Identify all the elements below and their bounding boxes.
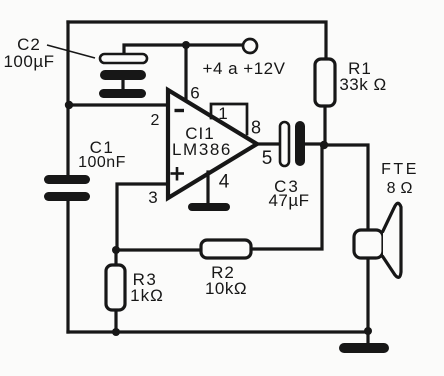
wire top rail (left column top to R1 top) bbox=[68, 22, 326, 59]
wire pin 3 (op-amp non-inverting input down to node B) bbox=[117, 184, 167, 250]
svg-text:33k Ω: 33k Ω bbox=[339, 75, 386, 94]
wire ground stub bottom right bbox=[366, 332, 369, 344]
wire output node to speaker bbox=[324, 145, 368, 230]
junction node B bbox=[112, 246, 120, 254]
wire bottom rail bbox=[68, 330, 368, 333]
svg-text:5: 5 bbox=[262, 148, 273, 169]
svg-text:8: 8 bbox=[251, 118, 261, 138]
ground bottom right bbox=[339, 343, 389, 353]
wire node A to C1 top plate bbox=[66, 105, 69, 176]
capacitor C1 top plate bbox=[44, 175, 90, 184]
wire C2 positive riser bbox=[124, 45, 186, 54]
junction node A bbox=[65, 101, 73, 109]
svg-text:100µF: 100µF bbox=[3, 52, 54, 71]
capacitor C3 negative plate bbox=[295, 121, 305, 166]
wire pin 4 (op-amp to ground) bbox=[206, 172, 209, 204]
wire R2 right riser to output node bbox=[251, 145, 322, 249]
wire R3 bottom to bottom rail bbox=[114, 310, 117, 332]
svg-text:LM386: LM386 bbox=[172, 140, 232, 159]
op-amp U1 triangle bbox=[168, 90, 257, 198]
capacitor C2 negative plate bbox=[100, 70, 146, 80]
junction R3 bottom bbox=[112, 328, 120, 336]
capacitor C1 bottom plate bbox=[44, 192, 90, 201]
wire pin 2 (node A to op-amp inverting input) bbox=[68, 103, 167, 106]
wire left column upper (top rail to node A) bbox=[66, 22, 69, 104]
svg-text:1: 1 bbox=[218, 104, 227, 123]
svg-text:10kΩ: 10kΩ bbox=[205, 279, 247, 298]
svg-text:FTE: FTE bbox=[381, 161, 419, 178]
wire pin 6 (supply node down to op-amp) bbox=[184, 45, 187, 100]
resistor R2 body bbox=[201, 240, 251, 258]
plus sign non-inverting input bbox=[171, 167, 185, 181]
wire C2 negative stub to ground bbox=[121, 80, 124, 90]
wire node B to R2 left bbox=[116, 248, 201, 251]
junction speaker bottom bbox=[364, 327, 372, 335]
wire supply line to terminal bbox=[186, 43, 243, 46]
wire C1 bottom plate to bottom rail bbox=[66, 200, 69, 332]
junction output node bbox=[320, 141, 328, 149]
svg-text:47µF: 47µF bbox=[268, 191, 309, 210]
svg-text:2: 2 bbox=[151, 112, 160, 129]
wire node B to R3 top bbox=[114, 250, 117, 265]
wire C3 to output node bbox=[305, 142, 324, 145]
ground below C2 bbox=[99, 89, 146, 98]
svg-text:4: 4 bbox=[219, 172, 230, 193]
wire pin 5 (op-amp output to C3) bbox=[256, 142, 280, 145]
svg-text:8Ω: 8Ω bbox=[387, 180, 418, 197]
junction supply node bbox=[182, 41, 190, 49]
wire R1 bottom to output node bbox=[323, 106, 326, 145]
capacitor C3 positive plate bbox=[280, 122, 289, 166]
wire speaker bottom to bottom rail bbox=[366, 258, 369, 332]
svg-text:+4 a +12V: +4 a +12V bbox=[203, 59, 286, 78]
svg-text:1kΩ: 1kΩ bbox=[130, 286, 164, 305]
ground below pin 4 bbox=[188, 203, 230, 211]
wire pins 1-8 bridge bbox=[211, 104, 247, 134]
svg-text:3: 3 bbox=[148, 188, 157, 207]
leader line from C2 label bbox=[47, 45, 95, 58]
minus sign inverting input bbox=[175, 109, 185, 112]
capacitor C2 positive plate bbox=[100, 54, 147, 63]
svg-text:100nF: 100nF bbox=[78, 154, 126, 171]
resistor R3 body bbox=[106, 265, 125, 310]
speaker FTE cone bbox=[383, 203, 401, 277]
resistor R1 body bbox=[315, 59, 335, 106]
speaker FTE frame bbox=[354, 230, 383, 258]
svg-text:6: 6 bbox=[190, 84, 199, 103]
terminal +V circle bbox=[243, 39, 257, 53]
